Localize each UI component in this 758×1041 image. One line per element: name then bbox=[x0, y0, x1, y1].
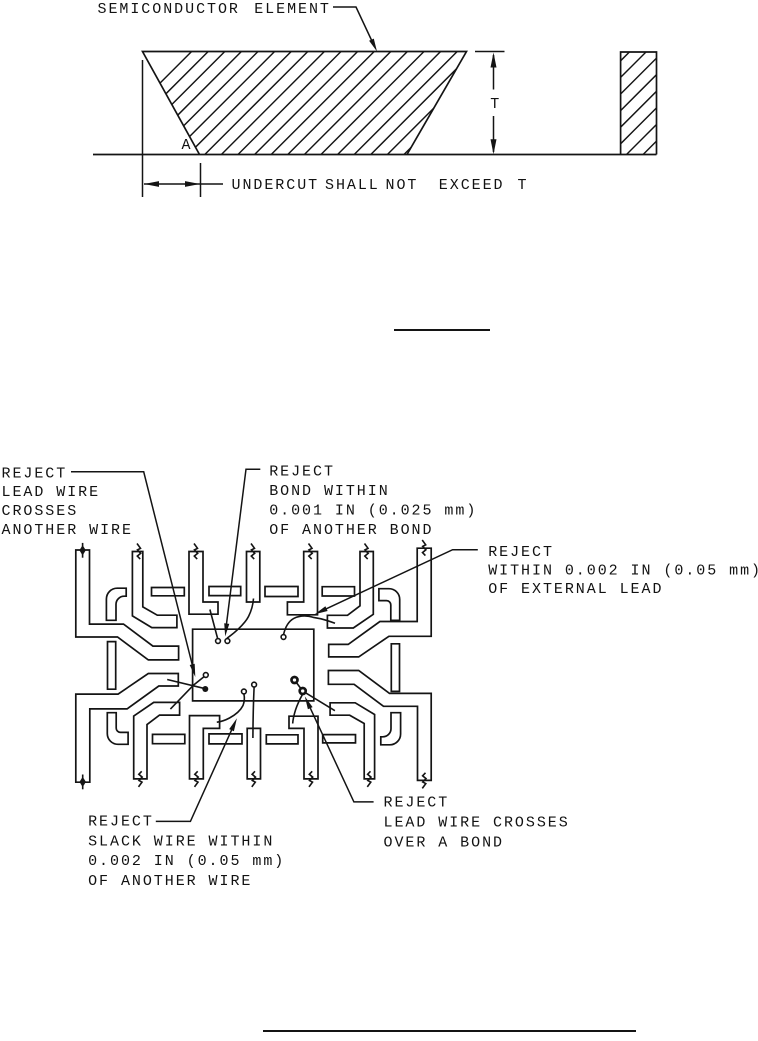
separator line bbox=[394, 329, 490, 331]
leader to semiconductor element bbox=[333, 7, 375, 47]
lead 7 top-right (big bend) bbox=[329, 548, 432, 657]
bond wire from pad 9 down bbox=[293, 694, 303, 724]
svg-text:OF EXTERNAL LEAD: OF EXTERNAL LEAD bbox=[488, 581, 663, 598]
leader: external lead bbox=[325, 550, 478, 610]
wire from left finger to filled bond (crossing) bbox=[167, 680, 205, 689]
svg-text:REJECT: REJECT bbox=[269, 464, 335, 481]
undercut extension lines bbox=[142, 60, 144, 197]
lead 5 top (step left) bbox=[287, 552, 317, 615]
die (semiconductor chip) bbox=[193, 629, 314, 701]
svg-text:OVER A BOND: OVER A BOND bbox=[384, 834, 504, 851]
svg-text:T: T bbox=[490, 96, 501, 113]
bond pad 6 bbox=[242, 689, 247, 694]
svg-text:CROSSES: CROSSES bbox=[2, 503, 79, 520]
lead 3 top (step) bbox=[189, 552, 218, 615]
elbow right-bottom bbox=[381, 713, 401, 745]
lead 12 bottom (step) bbox=[289, 716, 318, 779]
bond pad 4 bbox=[203, 673, 208, 678]
elbow left-top bbox=[106, 588, 126, 620]
lead 13 bottom (bent finger) bbox=[330, 703, 375, 779]
bar segment bottom D bbox=[323, 735, 356, 743]
lead 1 top-left (with arrow) bbox=[76, 550, 179, 660]
svg-text:ANOTHER WIRE: ANOTHER WIRE bbox=[2, 522, 133, 539]
bond pad 7 bbox=[252, 682, 257, 687]
bond wire from pad 3 toward lead 6 (too close to external lead) bbox=[284, 616, 336, 635]
slot bar right bbox=[391, 644, 399, 692]
bond wire from pad 7 down bbox=[253, 687, 254, 738]
svg-text:REJECT: REJECT bbox=[384, 795, 450, 812]
wire crossing over bond pad 9 bbox=[295, 680, 335, 711]
svg-text:LEAD WIRE: LEAD WIRE bbox=[2, 484, 101, 501]
elbow right-top bbox=[379, 589, 400, 621]
lead 6 top (bent finger) bbox=[327, 552, 373, 629]
bar segment top A bbox=[152, 588, 185, 596]
lead 10 bottom (step) bbox=[190, 716, 220, 779]
slot bar left bbox=[108, 642, 116, 690]
svg-text:REJECT: REJECT bbox=[2, 465, 68, 482]
svg-text:UNDERCUT: UNDERCUT bbox=[232, 177, 320, 194]
bond pad 8 bbox=[292, 677, 298, 683]
bond wire from pad 1 to lead 3 bbox=[210, 610, 218, 639]
svg-text:REJECT: REJECT bbox=[88, 814, 154, 831]
svg-text:0.002 IN (0.05 mm): 0.002 IN (0.05 mm) bbox=[88, 853, 285, 870]
bar segment bottom B bbox=[209, 734, 242, 744]
slack bond wire from pad 6 bbox=[217, 694, 245, 722]
leader: crosses another wire bbox=[71, 472, 194, 673]
leader: over a bond bbox=[309, 706, 374, 802]
leader: slack wire bbox=[156, 728, 233, 822]
undercut dimension arrows bbox=[144, 183, 200, 185]
svg-text:OF ANOTHER WIRE: OF ANOTHER WIRE bbox=[88, 873, 252, 890]
bond pad 1 bbox=[216, 639, 221, 644]
svg-text:SLACK WIRE WITHIN: SLACK WIRE WITHIN bbox=[88, 833, 274, 850]
svg-text:A: A bbox=[182, 137, 193, 154]
svg-text:T: T bbox=[518, 177, 529, 194]
hatching of semiconductor element bbox=[160, 52, 192, 84]
bar segment bottom C bbox=[266, 735, 298, 744]
elbow left-bottom bbox=[107, 713, 128, 745]
hatched block at right bbox=[621, 52, 657, 155]
bond pad 5 (filled) bbox=[202, 686, 208, 692]
baseline bbox=[93, 154, 657, 156]
svg-text:LEAD WIRE CROSSES: LEAD WIRE CROSSES bbox=[384, 815, 570, 832]
lead 2 top (bent) bbox=[132, 552, 177, 628]
bottom rule bbox=[263, 1030, 636, 1032]
lead 9 bottom (bent) bbox=[134, 702, 180, 779]
lead 11 bottom (plain) bbox=[247, 728, 260, 779]
svg-text:EXCEED: EXCEED bbox=[439, 177, 505, 194]
lead 4 top (plain) bbox=[247, 552, 260, 603]
svg-text:OF ANOTHER BOND: OF ANOTHER BOND bbox=[269, 522, 433, 539]
lead 14 bottom-right (big bend) bbox=[328, 671, 431, 781]
wire from lower left finger to open bond (crossing) bbox=[170, 675, 205, 709]
svg-text:BOND WITHIN: BOND WITHIN bbox=[269, 483, 389, 500]
bond pad 2 bbox=[225, 639, 230, 644]
svg-text:0.001 IN (0.025 mm): 0.001 IN (0.025 mm) bbox=[269, 503, 477, 520]
leader: bond within bbox=[226, 469, 261, 631]
T dimension line with arrows bbox=[475, 51, 505, 53]
svg-text:SEMICONDUCTOR ELEMENT: SEMICONDUCTOR ELEMENT bbox=[98, 1, 331, 18]
lead 8 bottom-left (with arrow) bbox=[76, 674, 179, 783]
svg-text:SHALL: SHALL bbox=[325, 177, 380, 194]
svg-text:WITHIN 0.002 IN (0.05 mm): WITHIN 0.002 IN (0.05 mm) bbox=[488, 563, 758, 580]
bar segment top D bbox=[322, 587, 354, 596]
semiconductor element body outline bbox=[143, 52, 467, 155]
bond wire from pad 2 to lead 4 bbox=[227, 599, 254, 639]
svg-text:REJECT: REJECT bbox=[488, 544, 554, 561]
svg-text:NOT: NOT bbox=[386, 177, 419, 194]
bar segment top B bbox=[209, 587, 241, 596]
bond pad 3 bbox=[281, 635, 286, 640]
bar segment top C bbox=[265, 587, 298, 597]
bar segment bottom A bbox=[153, 734, 185, 743]
bond pad 9 bbox=[300, 688, 306, 694]
